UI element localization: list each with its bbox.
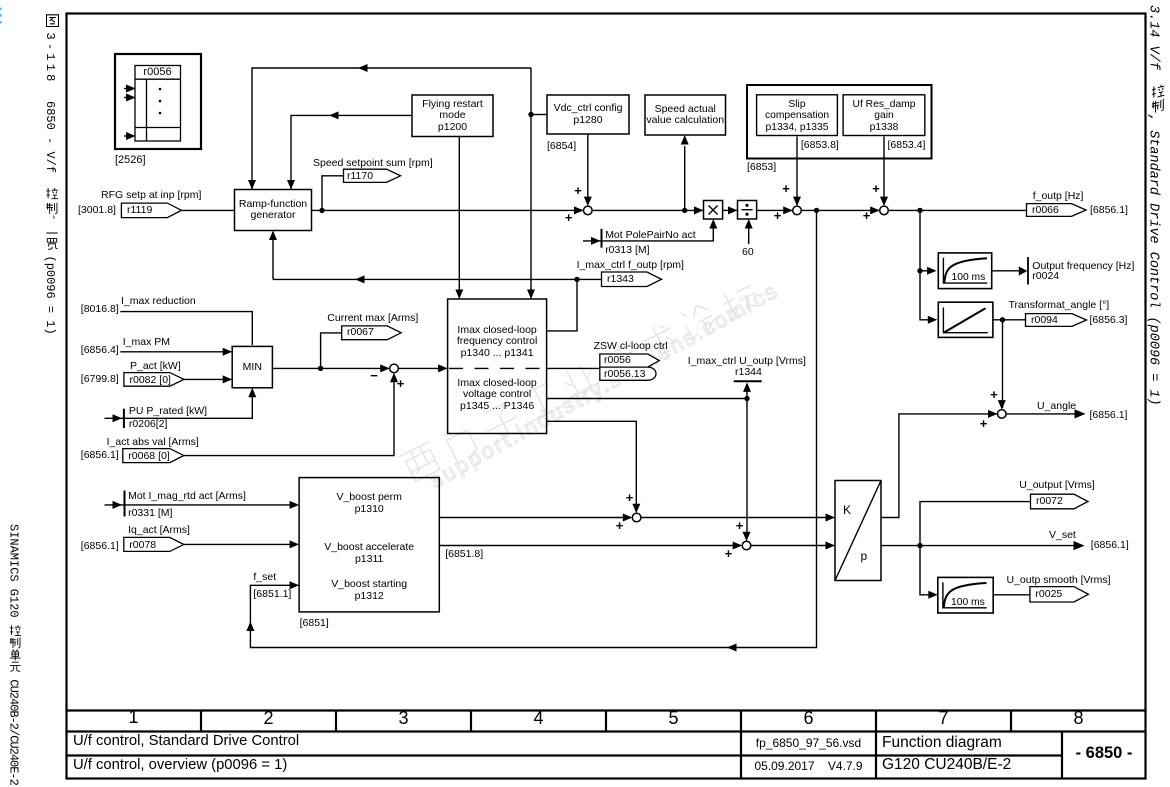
wire K/p out V_set [881, 545, 1078, 547]
wire tap up to r0067 [321, 333, 342, 369]
connectors [121, 169, 1088, 602]
wire Imax out3 to r1344 node [547, 398, 747, 400]
node before multiplier [682, 208, 687, 213]
arrow down into Imax x459 [455, 290, 463, 300]
table texts [66, 712, 201, 724]
plus minus signs [573, 185, 583, 197]
node RFG output junction [319, 208, 324, 213]
arrow r0313 start [591, 237, 601, 245]
sum node S1 [584, 206, 593, 215]
sidebar right: 3.14 V/f 控制, Standard Drive Control (p0096 = 1) [1146, 5, 1165, 406]
wire RFG bottom feedback [272, 232, 274, 279]
svg-text:, Standard Drive Control (p009: , Standard Drive Control (p0096 = 1) [1146, 114, 1161, 406]
wire multiplier to divider [723, 209, 739, 211]
wire 60 input [748, 228, 750, 244]
block Imax closed-loop control [448, 299, 547, 434]
wire vertical x920 to filter blocks [920, 210, 929, 319]
wire down to sum S4 [1002, 320, 1004, 408]
wire tap to r1170 [322, 176, 344, 211]
sum node S4 [998, 410, 1007, 419]
wire S6 to K/p input1 [641, 517, 834, 519]
node r1343 junction [574, 277, 579, 282]
wire stub to Vdc box [531, 114, 547, 116]
sum node S5 [390, 364, 399, 373]
arrow out U_angle [1075, 409, 1086, 418]
arrow into S7 [733, 542, 743, 550]
wire Imax out1 to r1343 [547, 279, 577, 331]
wire Uf Res down to sum S3 [883, 137, 885, 199]
sum node S2 [793, 206, 802, 215]
svg-text:3-118: 3-118 [43, 33, 57, 85]
arrow down into S3 [880, 197, 888, 207]
wire r0082 to MIN [184, 378, 231, 380]
arrow into S3 [870, 206, 880, 214]
wire smoothing3 to r0025 [993, 594, 1030, 596]
wire r0068 up to S5 [184, 375, 394, 456]
wire up to speed actual calc [684, 146, 686, 210]
connector r0025 [1030, 587, 1089, 602]
connector r1343 [602, 272, 662, 287]
text labels [115, 155, 146, 167]
arrow into K p input2 [826, 542, 836, 550]
wire feedback y279 to RFG [273, 278, 577, 280]
wire ZSW stub [547, 367, 600, 369]
svg-text:SINAMICS G120: SINAMICS G120 [7, 524, 21, 618]
arrow into S4 [988, 410, 998, 418]
block MIN [232, 346, 272, 387]
node r0066 branch [917, 208, 922, 213]
arrow into MIN in1 [223, 348, 233, 356]
arrow down into RFG x291 [287, 180, 295, 190]
sum node S3 [880, 206, 889, 215]
arrows [113, 64, 1086, 652]
arrow down into S7 [743, 532, 751, 542]
block transform angle integrator [938, 302, 993, 337]
arrow out V_set [1074, 541, 1085, 550]
connector ZSW r0056 [600, 354, 660, 367]
connector ZSW r0056.13 [600, 367, 656, 380]
wire V_boost out A to S6 [439, 517, 626, 519]
arrow into V_boost in1 [290, 501, 300, 509]
arrow up into multiplier [709, 219, 717, 229]
block V_boost [299, 478, 439, 612]
wire Mot I_mag input [105, 504, 298, 506]
arrow into S1 [574, 206, 584, 214]
node long drop junction [814, 208, 819, 213]
svg-text:3.14 V/f: 3.14 V/f [1146, 5, 1161, 71]
wire S3 to r0066 [888, 209, 1026, 211]
arrow into multiplier [694, 206, 704, 214]
wire I_max reduction [120, 312, 252, 345]
block p1334 slip compensation [757, 95, 838, 136]
wire divider to S2 [757, 209, 793, 211]
arrow into V_boost f_set [290, 581, 300, 589]
wire top feedback y68 [252, 68, 531, 190]
svg-text:CU240B-2/CU240E-2: CU240B-2/CU240E-2 [7, 679, 21, 785]
wire S7 to K/p input2 [751, 545, 834, 547]
connector r1119 [121, 203, 181, 218]
arrow down into S6 [632, 504, 640, 514]
wire r1343 stub [577, 278, 602, 280]
arrow into smoothing top [927, 267, 937, 275]
tick PU P_rated [123, 409, 125, 428]
wire r0078 input [184, 543, 298, 545]
wire S5 to Imax box [398, 367, 438, 369]
block smoothing 100ms top [938, 253, 991, 289]
connector r1170 [344, 169, 401, 182]
arrow into S5 [380, 364, 390, 372]
arrow into S2 [783, 206, 793, 214]
wire r0313 input [583, 228, 713, 241]
node filter branch [917, 268, 922, 273]
wire MIN out to S5 [272, 367, 388, 369]
wire r1119 to RFG [182, 209, 235, 211]
arrow into Imax box [438, 364, 448, 372]
wire S1 to multiplier [592, 209, 704, 211]
arrow Mot I_mag start [113, 501, 123, 509]
arrow into inner r0056 a [126, 85, 136, 93]
arrow up mid x250 [246, 622, 254, 632]
wire vertical x531 to Imax [530, 68, 532, 298]
arrow mid feedback y115 [329, 111, 339, 119]
wire r1344 node down to S7 [746, 399, 748, 535]
arrow into V_boost in2 [290, 540, 300, 548]
wire r1344 up arrow line [746, 390, 748, 399]
wire branch down to smoothing3 [920, 546, 930, 595]
node r1344 junction [744, 396, 749, 401]
arrow into inner r0056 b [126, 94, 136, 102]
block slip compensation outer frame 6853 [747, 85, 932, 159]
node r0094 branch [1000, 317, 1005, 322]
wire S4 out U_angle [1006, 413, 1078, 415]
watermark [397, 269, 791, 502]
wire integrator out to r0094 [992, 319, 1025, 321]
arrow out r0024 [1019, 266, 1028, 275]
bar r0024 [1027, 257, 1029, 285]
bar r1344 [734, 380, 762, 382]
arrow up into RFG bottom [269, 231, 277, 241]
arrow into inner r0056 c [126, 132, 136, 140]
wire I_max PM [120, 351, 231, 353]
connector r0082 [124, 373, 184, 387]
svg-text:(p0096 = 1): (p0096 = 1) [43, 256, 57, 335]
arrow mid feedback y279 [355, 275, 365, 283]
sidebar left top: 图 3-118 6850 - V/f 控制，一览 (p0096 = 1) [43, 15, 59, 335]
wire K/p up to S4 [881, 414, 997, 518]
node r0067 tap [318, 366, 323, 371]
connector r0094 [1026, 314, 1087, 327]
arrow down into RFG x252 [248, 180, 256, 190]
arrow down into S2 [793, 197, 801, 207]
block U_rfg Ramp-function generator [235, 190, 312, 231]
svg-text:6850 - V/f: 6850 - V/f [43, 101, 57, 173]
wire smoothing to r0024 bar [992, 270, 1020, 272]
arrow into MIN in2 [223, 375, 233, 383]
connector r0067 [342, 326, 402, 340]
wire S2 to S3 [801, 209, 880, 211]
wire Vdc down to sum S1 [587, 134, 589, 198]
wire p1200 down to Imax [458, 137, 460, 299]
node V_set branch [917, 543, 922, 548]
arrow into divider [728, 206, 738, 214]
arrow into integrator [928, 316, 938, 324]
wire V_boost out B to S7 [439, 545, 736, 547]
wire feedback y115 [291, 115, 412, 189]
block smoothing 100ms bottom [938, 577, 993, 613]
arrow up into MIN bottom [248, 388, 256, 398]
wire branch up to r0072 [920, 502, 1031, 546]
arrow PU P_rated start [113, 414, 123, 422]
wire PU P_rated [105, 390, 253, 418]
arrow up into speed calc [681, 135, 689, 145]
multiplier box [704, 201, 723, 220]
block r0056 status word [2526] [115, 54, 201, 149]
arrow up into S5 bottom [390, 373, 398, 383]
sum node S7 [742, 541, 751, 550]
block p1200 Flying restart mode [412, 95, 493, 137]
arrow down into S4 [998, 400, 1006, 410]
arrow mid feedback y68 [358, 64, 368, 72]
connector r0066 [1027, 204, 1087, 217]
node x531 Vdc junction [528, 112, 533, 117]
block p1280 Vdc_ctrl config [547, 95, 629, 134]
sum node S6 [632, 513, 641, 522]
wire long drop x816 [250, 210, 816, 647]
block K/p converter [835, 481, 881, 581]
arrow mid feedback y648 [727, 644, 737, 652]
wire Imax out4 to S6 [547, 421, 637, 506]
block speed actual value calculation [645, 95, 726, 135]
edge marks [0, 8, 2, 24]
arrow into smoothing bottom [928, 591, 938, 599]
arrow into K p input1 [826, 514, 836, 522]
wire branch to smoothing block [920, 270, 929, 272]
arrow up r1344 bar [743, 382, 751, 392]
divider box [738, 201, 757, 220]
sidebar left bottom: SINAMICS G120 控制单元 CU240B-2/CU240E-2 [7, 524, 22, 786]
arrow up into divider [745, 219, 753, 229]
tick Mot I_mag [124, 491, 126, 517]
wire RFG output main line [312, 209, 585, 211]
connector r0068 [123, 449, 184, 463]
connector r0078 [124, 537, 184, 551]
arrow into S6 [623, 514, 633, 522]
wire slip comp down to sum S2 [796, 137, 798, 199]
wire dashed through Imax [449, 367, 547, 369]
arrow down into Imax x531 [527, 290, 535, 300]
connector r0072 [1031, 494, 1089, 509]
wire f_set into V_boost [290, 584, 299, 586]
block p1338 Uf Res_damp gain [843, 95, 925, 136]
tick r0313 [601, 229, 603, 248]
arrow down into S1 [584, 197, 592, 207]
